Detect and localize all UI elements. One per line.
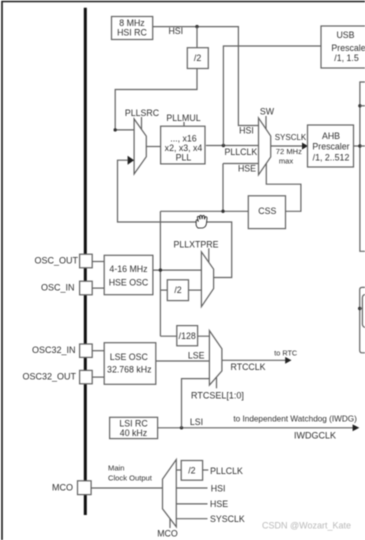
svg-text:SW: SW (260, 107, 275, 117)
stub to APB (upper) (360, 105, 365, 107)
svg-text:IWDGCLK: IWDGCLK (294, 431, 336, 441)
mux SW (259, 118, 271, 175)
svg-text:RTCSEL[1:0]: RTCSEL[1:0] (191, 390, 244, 400)
svg-text:CSS: CSS (258, 206, 276, 216)
svg-text:to Independent Watchdog (IWDG): to Independent Watchdog (IWDG) (233, 414, 357, 423)
pad OSC32_OUT (22, 370, 92, 383)
wire PLLSRC mux output to PLL (146, 146, 161, 148)
svg-text:Main: Main (108, 464, 124, 473)
wire HSE to CSS and SW (HSE rail) (160, 164, 258, 337)
pad MCO (52, 481, 91, 495)
svg-text:HSI RC: HSI RC (117, 27, 147, 37)
wire AHB output to HCLK rail (354, 145, 360, 147)
svg-text:4-16 MHz: 4-16 MHz (109, 264, 147, 274)
select stub PLLSRC (141, 117, 143, 130)
LSI RC oscillator (110, 417, 158, 438)
svg-text:PLLXTPRE: PLLXTPRE (174, 239, 219, 249)
wire HSI/2 to PLLSRC mux (115, 69, 197, 130)
svg-text:Prescaler: Prescaler (312, 141, 349, 151)
mux MCO (163, 460, 177, 527)
junction HSE/CSS node (221, 210, 224, 213)
svg-text:PLLMUL: PLLMUL (166, 113, 200, 123)
svg-text:Clock Output: Clock Output (108, 473, 153, 482)
arrowhead HSE input of PLLSRC (128, 156, 135, 165)
wire HSI/2 branch to divider (196, 27, 198, 48)
USB prescaler block (321, 26, 365, 68)
stub to APB (lower) (360, 145, 365, 147)
wire LSI up to RTCSEL mux (182, 379, 210, 428)
wire HSE/2 branch (160, 289, 167, 291)
wire PLLCLK/2 into MCO mux (176, 469, 181, 471)
wire HSE/128 to RTCSEL (160, 335, 209, 337)
wire PLLCLK up to USB prescaler (223, 46, 321, 146)
wire OSC_IN to HSE OSC (92, 287, 104, 289)
junction HCLK rail at AHB output (358, 144, 361, 147)
svg-text:/1, 2..512: /1, 2..512 (313, 153, 350, 163)
select stub MCO (169, 519, 171, 528)
svg-text:PLLCLK: PLLCLK (225, 147, 258, 157)
device boundary bar (84, 8, 87, 515)
svg-text:OSC_IN: OSC_IN (41, 282, 75, 292)
wire CSS to SW mux (266, 164, 301, 212)
svg-text:72 MHz: 72 MHz (276, 147, 302, 156)
wire /2 to PLLCLK label (203, 469, 209, 471)
pad OSC32_IN (32, 344, 92, 357)
junction HSI node (195, 25, 198, 28)
mux PLLSRC (134, 119, 146, 174)
svg-text:PLLSRC: PLLSRC (125, 108, 160, 118)
svg-text:/128: /128 (179, 331, 196, 341)
svg-text:PLLCLK: PLLCLK (210, 466, 243, 476)
junction LSI node (180, 426, 183, 429)
svg-text:HSE: HSE (210, 499, 228, 509)
hand cursor icon (196, 215, 207, 228)
svg-text:AHB: AHB (322, 131, 340, 141)
svg-text:HSI: HSI (239, 126, 254, 136)
svg-text:HSI: HSI (168, 26, 183, 36)
junction PLLCLK node (222, 144, 225, 147)
HSE OSC block (104, 255, 153, 294)
svg-text:HSI: HSI (211, 484, 226, 494)
arrowhead IWDGCLK (353, 424, 360, 431)
arrowhead SYSCLK into AHB (302, 143, 308, 150)
select stub PLLXTPRE (208, 248, 210, 262)
wire OSC_OUT to HSE OSC (92, 261, 104, 263)
LSE OSC block (104, 343, 156, 385)
divider /2 (MCO) (181, 461, 202, 481)
CSS block (248, 196, 285, 229)
divider /2 (HSI to PLL) (187, 48, 208, 69)
wire RTCCLK to RTC (222, 359, 287, 361)
wire MCO pad to mux (91, 487, 162, 489)
svg-text:OSC32_OUT: OSC32_OUT (22, 372, 76, 382)
junction at PLLSRC input (114, 128, 117, 131)
mux PLLXTPRE (201, 252, 213, 307)
wire HSE OSC output (153, 269, 202, 271)
wire HSE/2 to PLLXTPRE mux (189, 289, 202, 291)
divider /2 (PLLXTPRE) (167, 280, 188, 301)
wire stub into enable gate (360, 308, 363, 310)
wire SYSCLK from SW to AHB prescaler (271, 145, 304, 147)
svg-text:LSE: LSE (188, 350, 205, 360)
svg-text:40 kHz: 40 kHz (120, 428, 147, 438)
svg-text:PLL: PLL (176, 152, 192, 162)
AHB prescaler block (308, 125, 354, 167)
svg-text:RTCCLK: RTCCLK (231, 362, 266, 372)
select stub PLLMUL (183, 122, 185, 126)
wire PLLCLK from PLL to SW mux (206, 145, 259, 147)
wire OSC32_IN to LSE OSC (92, 350, 104, 352)
PLL block (161, 126, 205, 164)
wire LSI to IWDG (158, 427, 355, 429)
svg-text:to RTC: to RTC (274, 348, 297, 357)
wire HSI from HSI RC to SW mux input (153, 27, 259, 126)
divider /128 (177, 326, 198, 346)
arrowhead to RTC (285, 357, 291, 364)
svg-text:/1, 1.5: /1, 1.5 (334, 53, 359, 63)
svg-text:SYSCLK: SYSCLK (210, 514, 245, 524)
select stub RTCSEL (216, 377, 218, 388)
svg-text:OSC_OUT: OSC_OUT (34, 256, 78, 266)
svg-text:/2: /2 (194, 53, 201, 63)
junction HCLK rail upper (358, 104, 361, 107)
wire OSC32_OUT to LSE OSC (92, 376, 104, 378)
svg-text:32.768 kHz: 32.768 kHz (107, 365, 152, 375)
svg-text:SYSCLK: SYSCLK (275, 133, 307, 142)
junction on backup rail (358, 307, 361, 310)
rounded enable-gate box (cut at right edge) (362, 294, 365, 327)
svg-text:..., x16: ..., x16 (170, 134, 197, 144)
svg-text:OSC32_IN: OSC32_IN (32, 345, 76, 355)
select stub SW (265, 116, 267, 129)
wire RTC/backup domain rail (right edge) (360, 287, 365, 352)
junction HSE node (159, 268, 162, 271)
svg-text:Prescaler: Prescaler (331, 43, 365, 53)
HCLK distribution rail (360, 82, 365, 251)
svg-text:CSDN @Wozart_Kate: CSDN @Wozart_Kate (262, 521, 351, 531)
wire SYSCLK into MCO mux (176, 518, 207, 520)
svg-text:USB: USB (336, 30, 354, 40)
svg-text:HSE: HSE (238, 164, 256, 174)
wire LSE to RTCSEL mux (156, 360, 210, 362)
svg-text:LSE OSC: LSE OSC (110, 352, 149, 362)
wire HSE into MCO mux (176, 503, 207, 505)
wire HSI into MCO mux (176, 487, 207, 489)
svg-text:/2: /2 (188, 465, 195, 475)
svg-text:/2: /2 (174, 285, 181, 295)
pad OSC_IN (41, 281, 92, 295)
oscillator U1 "8 MHz HSI RC" (112, 17, 153, 40)
wire HSE return into PLLSRC (from PLLXTPRE output) (118, 160, 232, 277)
svg-text:LSI: LSI (190, 417, 203, 427)
svg-text:MCO: MCO (157, 528, 178, 538)
svg-text:max: max (279, 156, 294, 165)
svg-text:MCO: MCO (52, 483, 73, 493)
svg-text:HSE OSC: HSE OSC (109, 278, 149, 288)
pad OSC_OUT (34, 254, 92, 268)
mux RTCSEL (209, 331, 222, 386)
